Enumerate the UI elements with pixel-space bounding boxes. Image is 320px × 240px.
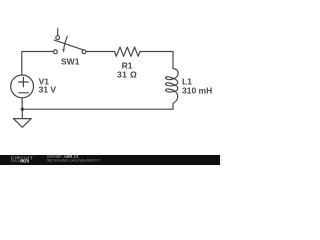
- wire R1 to top-right corner and down: [140, 52, 173, 69]
- inductor L1: [165, 69, 178, 105]
- ground symbol: [13, 119, 31, 128]
- watermark logo LAB box: [20, 160, 28, 163]
- voltage source V1 circle: [11, 75, 34, 98]
- svg-text:31 Ω: 31 Ω: [117, 69, 137, 79]
- switch SW1 throw stub: [57, 29, 59, 36]
- svg-text:LAB: LAB: [21, 159, 29, 163]
- V1 plus sign: [19, 77, 29, 87]
- svg-text:SW1: SW1: [61, 56, 80, 66]
- wire V1 bottom to junction: [21, 98, 23, 110]
- wire junction to ground stub: [21, 109, 23, 118]
- V1 minus sign: [19, 92, 29, 94]
- wire SW1 to R1: [86, 51, 114, 53]
- watermark bar: [0, 155, 220, 165]
- wire L1 down to bottom-right corner and bottom wire: [22, 104, 173, 109]
- switch SW1 arrowhead: [62, 49, 64, 53]
- switch SW1 action arrow: [64, 36, 68, 49]
- svg-text:310 mH: 310 mH: [182, 86, 212, 96]
- junction node dot: [21, 107, 25, 111]
- resistor R1: [114, 47, 140, 56]
- wire top-left from V1 up and right to SW1: [22, 52, 54, 76]
- switch SW1 lever: [54, 40, 82, 50]
- svg-text:31 V: 31 V: [39, 85, 57, 95]
- switch SW1 left terminal: [54, 50, 58, 54]
- svg-text:http://circuitlab.com/c/nqbw38: http://circuitlab.com/c/nqbw38fhsh77: [47, 158, 100, 162]
- switch SW1 upper terminal: [56, 36, 60, 40]
- watermark logo resistor zigzag: [11, 160, 20, 162]
- switch SW1 right terminal: [82, 50, 86, 54]
